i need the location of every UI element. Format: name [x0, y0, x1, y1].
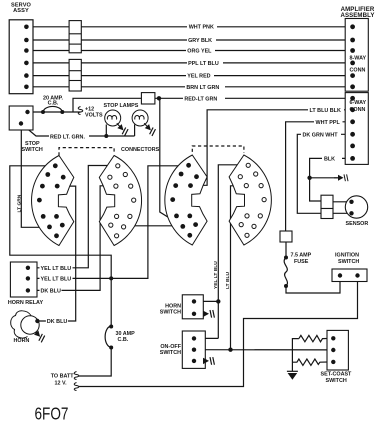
fan3 pins filled [170, 163, 199, 238]
svg-text:C.B.: C.B. [118, 337, 129, 343]
svg-text:ASSEMBLY: ASSEMBLY [340, 12, 374, 19]
breaker 20A dots [41, 110, 64, 114]
wire on-off pin2 to set-coast middle pin [194, 349, 333, 351]
junction dot red feed [157, 96, 161, 100]
sensor circle [345, 196, 367, 218]
horn switch box [182, 295, 203, 319]
label backgrounds [40, 23, 345, 325]
servo assembly box [9, 20, 33, 94]
svg-text:6FO7: 6FO7 [35, 404, 69, 424]
svg-text:SWITCH: SWITCH [338, 259, 359, 265]
svg-text:YEL RED: YEL RED [187, 74, 210, 80]
svg-text:VOLTS: VOLTS [85, 112, 103, 118]
svg-text:SWITCH: SWITCH [160, 350, 181, 356]
wire DK GRN WHT amp pin to sensor lower cell [297, 134, 352, 213]
svg-text:GRY BLK: GRY BLK [188, 38, 212, 44]
chassis ground at lamp1 [114, 120, 130, 136]
junction dot lamp1 [104, 134, 108, 138]
dashed bracket pair2 [192, 146, 244, 153]
svg-text:DK BLU: DK BLU [47, 319, 67, 325]
wire fuse lead top [285, 242, 287, 258]
horn terminal dot [35, 319, 39, 323]
wire stop switch to 20A breaker to +12V [28, 111, 81, 113]
amplifier 8-way box [345, 19, 368, 92]
svg-text:LT BLU: LT BLU [225, 272, 231, 289]
svg-text:6-WAY: 6-WAY [350, 100, 367, 106]
svg-text:RED-LT GRN: RED-LT GRN [184, 96, 217, 102]
junction dot blk ground [307, 176, 311, 180]
horn symbol [11, 311, 31, 338]
wire sensor cell2 to sensor pin2 [333, 212, 350, 214]
svg-text:CONN: CONN [350, 67, 366, 73]
wire LT BLU column vertical fan4 to on-off pin2 and set-coast [231, 186, 244, 350]
svg-text:C.B.: C.B. [48, 101, 59, 107]
junction dot batt breaker [109, 276, 113, 280]
chassis ground at lamp2 [142, 120, 158, 136]
connector fan1 outline [32, 156, 74, 246]
stop lamp feed connector square [141, 93, 155, 104]
wire PPL LT BLU servo pin4 to amp [26, 62, 352, 64]
horn switch dots [192, 299, 196, 316]
connector fan2 outline [99, 156, 141, 246]
wire WHT PPL amp pin down to fuse [286, 122, 353, 231]
wire LT BLU BLK amp pin to fan3 inner dot [190, 110, 352, 186]
wire sensor cell1 to sensor pin1 [333, 201, 350, 203]
fuse feed connector square [280, 231, 292, 242]
circuit breaker 30 AMP C.B. arc [105, 326, 111, 348]
break symbol to batt upper [74, 372, 79, 380]
svg-text:12 V.: 12 V. [55, 380, 68, 386]
wire YEL RED servo pin5 to amp [26, 75, 352, 77]
wire GRY BLK servo pin2 to amp [26, 39, 352, 41]
svg-text:LT GRN: LT GRN [17, 194, 23, 212]
svg-text:STOP LAMPS: STOP LAMPS [104, 103, 139, 109]
wire BLK junction to chassis ground [310, 177, 339, 179]
wire RED LT GRN stop switch diagonal and lamp bus [21, 124, 135, 137]
svg-text:YEL LT BLU: YEL LT BLU [41, 266, 72, 272]
svg-text:DK BLU: DK BLU [41, 289, 61, 295]
horn relay dots [26, 266, 30, 293]
break symbol +12 volts [78, 107, 83, 115]
svg-text:FUSE: FUSE [294, 259, 309, 265]
sensor pins [349, 200, 353, 216]
fan2 pins open [108, 164, 136, 238]
wire fuse bottom to ignition switch pin1 [286, 276, 340, 293]
svg-text:ASSY: ASSY [13, 8, 29, 14]
svg-text:IGNITION: IGNITION [335, 252, 359, 258]
svg-text:PPL LT BLU: PPL LT BLU [188, 61, 219, 67]
circuit breaker 20 AMP C.B. arc [43, 106, 62, 112]
svg-text:8-WAY: 8-WAY [350, 55, 367, 61]
wire fan1 inner dot2 down to horn [37, 186, 75, 321]
sensor connector cells [321, 195, 333, 218]
wire breaker to TO BATT break [79, 348, 111, 377]
svg-text:BLK: BLK [324, 156, 335, 162]
wire stop lamp1 drop [105, 125, 107, 137]
wire on-off switch pin1 [194, 337, 218, 339]
earth ground at set-coast [287, 371, 298, 380]
connector block lower 3-cell [69, 59, 81, 91]
chassis ground at horn switch [203, 310, 214, 318]
wire DK BLU relay3 to fan2 inner circle [28, 186, 114, 291]
wire YEL LT BLU relay2 to fan3 dot1 [28, 166, 189, 279]
horn relay box [10, 262, 37, 297]
svg-text:SENSOR: SENSOR [346, 221, 369, 227]
wire horn switch pin1 to column [194, 300, 218, 302]
wire RED feed down from junction to fan3 dot diagonal [159, 98, 183, 226]
svg-text:7.5 AMP: 7.5 AMP [291, 252, 312, 258]
wire horn switch pin2 to ground [194, 313, 202, 315]
set-coast dots [331, 336, 335, 364]
stop lamp 2 [132, 110, 148, 126]
svg-text:ORG YEL: ORG YEL [187, 49, 212, 55]
wire stop lamp2 drop [134, 125, 136, 137]
wire YEL LT BLU steering column vertical [218, 165, 246, 339]
wire BLK amp pin down to ground and sensor upper cell [310, 158, 353, 201]
svg-text:LT BLU BLK: LT BLU BLK [310, 108, 341, 114]
fan4 pins open [238, 163, 266, 237]
resistor R-set left rail [292, 339, 299, 372]
junction dot column lt blu [228, 348, 232, 352]
svg-text:SWITCH: SWITCH [22, 147, 43, 153]
resistor R-coast lower zigzag [292, 359, 333, 365]
break symbol to batt lower [74, 383, 79, 391]
wire RED LT GRN from connector square to amp 6-way pin1 [155, 97, 353, 99]
junction dot column yel lt blu [216, 299, 220, 303]
stop lamp 1 [105, 110, 121, 126]
svg-text:YEL LT BLU: YEL LT BLU [213, 261, 219, 289]
terminal dots servo [24, 25, 29, 90]
svg-text:SWITCH: SWITCH [160, 310, 181, 316]
wire stop lamp feed from +12V line up to connector square [73, 98, 141, 112]
resistor R-set upper zigzag [299, 335, 333, 341]
wire ORG YEL servo pin3 to amp [26, 50, 352, 52]
wire on-off pin3 to ground [194, 360, 202, 362]
svg-text:RED LT. GRN.: RED LT. GRN. [50, 134, 85, 140]
chassis ground at on-off switch [203, 357, 214, 365]
svg-text:HORN RELAY: HORN RELAY [8, 300, 44, 306]
svg-text:WHT PNK: WHT PNK [189, 25, 214, 31]
svg-text:DK GRN WHT: DK GRN WHT [303, 132, 339, 138]
svg-text:SET-COAST: SET-COAST [321, 372, 353, 378]
wire fan1 top dot L-path to battery breaker [10, 166, 111, 328]
on-off switch dots [192, 336, 196, 363]
stop switch box [9, 106, 33, 130]
stop switch dots [19, 110, 30, 126]
svg-text:SWITCH: SWITCH [326, 378, 347, 384]
svg-text:HORN: HORN [14, 338, 30, 344]
set-coast switch box [327, 330, 348, 370]
svg-text:CONN: CONN [350, 107, 366, 113]
wire YEL LT BLU relay1 to fan2 circle1 [28, 166, 116, 268]
svg-text:BRN LT GRN: BRN LT GRN [186, 85, 219, 91]
fuse dots [284, 256, 288, 289]
chassis ground at horn [31, 327, 46, 343]
fuse 7.5 AMP wiggle [284, 258, 287, 287]
amplifier 6-way box [345, 93, 368, 165]
svg-text:WHT PPL: WHT PPL [316, 120, 341, 126]
breaker 30A dots [109, 325, 113, 350]
terminal dots amplifier [350, 24, 355, 160]
wire fan2 circle to fan3 dot [124, 225, 183, 227]
chassis ground at amp right [334, 174, 348, 181]
fan1 pins filled [37, 163, 66, 238]
wire WHT PNK servo pin1 to amp [26, 26, 352, 28]
wire TO BATT lower feed to ignition [79, 276, 358, 387]
connector block upper 3-cell [69, 21, 81, 53]
wire BRN LT GRN servo pin6 to amp [26, 86, 352, 88]
svg-text:CONNECTORS: CONNECTORS [121, 147, 160, 153]
ignition switch dots [338, 273, 360, 277]
wire LT GRN stop switch down to fan1 [21, 124, 49, 228]
dashed bracket pair1 [59, 148, 114, 156]
on-off switch box [182, 331, 205, 368]
connector fan3 outline [165, 155, 207, 245]
svg-text:YEL LT BLU: YEL LT BLU [41, 277, 72, 283]
ignition switch box [332, 269, 367, 282]
svg-text:TO BATT: TO BATT [51, 373, 75, 379]
connector fan4 outline [229, 155, 271, 245]
